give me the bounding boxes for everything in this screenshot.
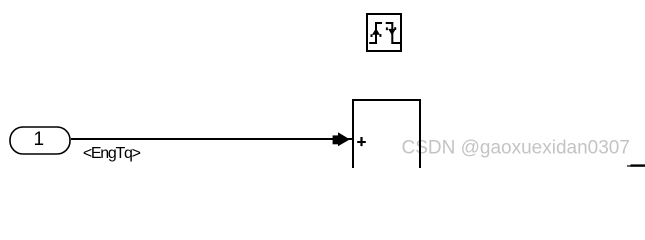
svg-text:1: 1 — [34, 129, 45, 150]
svg-text:CSDN @gaoxuexidan0307: CSDN @gaoxuexidan0307 — [402, 138, 630, 159]
svg-text:<EngTq>: <EngTq> — [83, 145, 141, 162]
